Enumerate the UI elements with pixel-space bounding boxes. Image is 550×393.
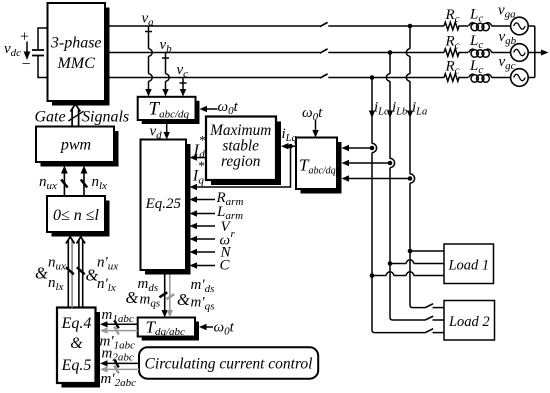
svg-text:Circulating current control: Circulating current control	[145, 356, 313, 373]
svg-text:q: q	[198, 175, 204, 187]
node load1 phase b	[388, 261, 393, 266]
arrow iLb down	[387, 111, 393, 119]
arrow w0t to T_abc/dq voltage	[200, 99, 239, 117]
wire phase a	[105, 25, 444, 27]
wire iLb vertical	[386, 53, 425, 321]
wire iLc to T box	[348, 147, 372, 149]
wire nux to pwm	[63, 172, 65, 196]
svg-text:Eq.4: Eq.4	[61, 315, 92, 332]
insertion index block Eq.4 & Eq.5	[57, 308, 100, 388]
arrow N	[197, 251, 215, 253]
svg-text:Load 2: Load 2	[448, 314, 490, 330]
svg-text:*: *	[199, 133, 206, 148]
svg-text:3-phase: 3-phase	[50, 35, 102, 52]
svg-text:Load 1: Load 1	[447, 258, 489, 274]
wire load1 phase c	[372, 272, 444, 276]
node phase a	[408, 24, 413, 29]
svg-text:Eq.5: Eq.5	[61, 357, 92, 374]
arrow C	[197, 265, 215, 267]
wire nlx to pwm	[83, 172, 85, 196]
svg-text:ω0t: ω0t	[218, 99, 239, 117]
vdc polarity arrow	[4, 29, 31, 74]
svg-text:Eq.25: Eq.25	[145, 196, 182, 212]
resistor Rc phase c	[444, 74, 468, 82]
ac source vgc	[511, 69, 529, 87]
svg-text:r: r	[231, 228, 236, 240]
node load1 phase c	[370, 273, 375, 278]
svg-text:+: +	[20, 29, 29, 46]
tap vb measurement	[162, 53, 169, 91]
breaker load2 phase a	[425, 304, 444, 308]
slash gate bus	[68, 111, 83, 121]
svg-text:ω0t: ω0t	[214, 320, 235, 338]
grid bus right	[534, 26, 536, 78]
ac source vgb	[511, 44, 529, 62]
arrow w0t to T_abc/dq current	[302, 105, 323, 138]
wire source a to bus	[528, 25, 535, 27]
inductor Lc phase a	[469, 23, 511, 31]
transform block T_dq/abc	[138, 318, 199, 341]
arrow Rarm	[197, 199, 215, 201]
svg-text:&: &	[70, 335, 83, 352]
node phase c	[370, 75, 375, 80]
tap vc measurement	[180, 78, 187, 91]
svg-text:Maximum: Maximum	[209, 122, 271, 139]
block Circulating current control	[139, 347, 318, 378]
slash mds-prime bus	[166, 294, 174, 299]
wire phase b	[105, 52, 444, 54]
arrow Larm	[197, 213, 215, 215]
inductor Lc phase b	[469, 49, 511, 57]
node tap iLc to transform	[370, 146, 375, 151]
svg-text:C: C	[220, 258, 231, 274]
wire m2abc	[106, 362, 139, 364]
transform block T_abc/dq (current)	[296, 138, 342, 194]
breaker phase a	[320, 22, 328, 26]
gate signals bus arrow	[70, 104, 80, 126]
wire m2abc-prime	[106, 368, 139, 370]
wire source c to bus	[528, 77, 535, 79]
ac source vga	[511, 17, 529, 35]
slash nlx	[81, 180, 87, 188]
transform block T_abc/dq (voltage)	[138, 97, 200, 124]
breaker phase c	[320, 74, 328, 78]
svg-text:&: &	[177, 290, 190, 309]
arrow iLa down	[407, 111, 413, 119]
converter block MMC	[48, 3, 110, 106]
svg-text:&: &	[35, 264, 48, 283]
svg-text:stable: stable	[222, 137, 259, 154]
arrow iLc down	[369, 111, 375, 119]
slash nux	[61, 180, 67, 188]
node phase b	[388, 50, 393, 55]
limiter block 0<=n<=1	[47, 196, 110, 237]
arrow vd to Eq.25	[150, 124, 170, 142]
bus arrow n-prime pair	[77, 237, 86, 308]
wire iLc vertical	[372, 78, 425, 333]
block Load 1	[444, 244, 494, 284]
slash n pair	[66, 267, 74, 274]
wire source b to bus	[528, 52, 535, 54]
wire iLq feedback to Eq.25	[197, 146, 291, 187]
block Load 2	[444, 301, 495, 341]
tap va measurement	[145, 26, 152, 90]
wire dc bottom	[38, 56, 48, 78]
arrow Vr	[197, 225, 215, 227]
wire iLa vertical	[406, 26, 425, 308]
slash n-prime pair	[77, 267, 85, 274]
svg-text:−: −	[22, 56, 31, 73]
pwm block	[36, 127, 119, 167]
resistor Rc phase b	[444, 49, 468, 57]
wire load1 phase b	[390, 260, 444, 264]
arrow w	[197, 238, 215, 240]
svg-text:pwm: pwm	[60, 137, 91, 154]
node tap iLb to transform	[388, 161, 393, 166]
controller block Eq.25	[141, 140, 191, 275]
slash m1abc	[114, 320, 118, 328]
svg-text:0≤ n ≤l: 0≤ n ≤l	[53, 207, 100, 224]
wire m1abc	[106, 323, 138, 325]
dc source vdc	[32, 28, 48, 78]
breaker load2 phase b	[425, 316, 444, 320]
inductor Lc phase c	[469, 74, 511, 82]
wire load1 phase a	[410, 250, 444, 252]
wire dc top	[38, 28, 48, 50]
bus arrow n pair	[66, 237, 75, 308]
svg-text:region: region	[221, 153, 261, 170]
svg-text:ω0t: ω0t	[302, 105, 323, 123]
breaker load2 phase c	[425, 329, 444, 333]
slash m2abc	[114, 359, 118, 367]
wire iLb to T box	[348, 162, 390, 164]
svg-text:MMC: MMC	[57, 55, 96, 72]
wire iLq to Maximum stable region	[281, 143, 296, 149]
slash m2abc-prime	[114, 365, 118, 373]
arrow w0t to T_dq/abc	[199, 320, 235, 338]
svg-text:Gate: Gate	[35, 109, 66, 126]
block Maximum stable region	[206, 117, 281, 186]
resistor Rc phase a	[444, 22, 468, 30]
arrow Id* to Eq.25	[190, 133, 207, 161]
svg-text:*: *	[198, 158, 205, 173]
node load1 phase a	[408, 249, 413, 254]
wire m1abc-prime	[106, 330, 138, 332]
grid output arrow	[535, 50, 549, 56]
capacitor plates	[32, 49, 44, 51]
slash mds bus	[159, 292, 167, 297]
wire iLa to T box	[348, 178, 410, 180]
node tap iLa to transform	[408, 176, 413, 181]
slash m1abc-prime	[114, 327, 118, 335]
bus mds mqs to Tdq/abc	[162, 275, 174, 318]
wire phase c	[105, 77, 444, 79]
breaker phase b	[320, 49, 328, 53]
svg-text:Signals: Signals	[82, 109, 129, 126]
